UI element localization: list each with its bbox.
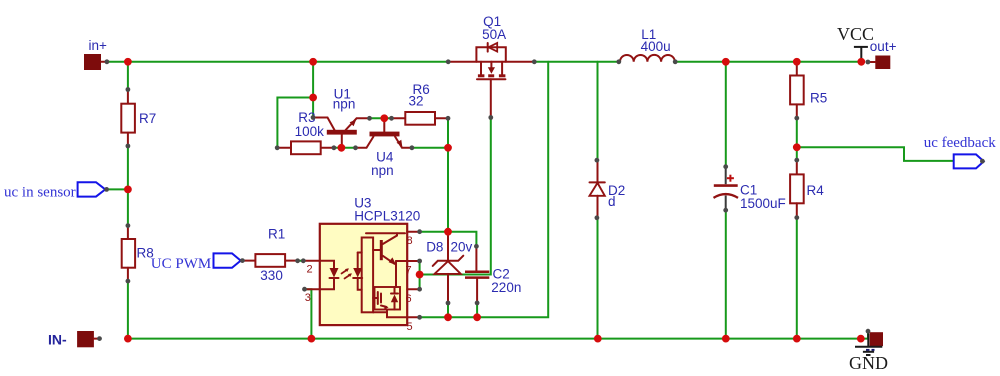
wire uc feedback run xyxy=(797,147,954,161)
svg-text:1500uF: 1500uF xyxy=(740,196,786,211)
wire C2 bottom xyxy=(476,303,478,317)
opto U3 pin 2 xyxy=(303,261,320,276)
wire R5 R4 column xyxy=(796,118,798,160)
wire top rail right xyxy=(675,61,861,63)
resistor R1 xyxy=(242,227,297,284)
opto U3 pin 3 xyxy=(305,289,320,304)
wire U4 emitter to R6 column xyxy=(412,147,448,149)
svg-text:D8: D8 xyxy=(426,240,443,255)
wire R3 feed elbow xyxy=(277,98,313,148)
resistor R7 xyxy=(121,90,156,146)
opto U3 photo led xyxy=(353,253,362,290)
resistor R8 xyxy=(122,226,154,282)
wire pin8 row to C2 xyxy=(420,232,477,247)
svg-text:npn: npn xyxy=(371,163,394,178)
opto U3 input led xyxy=(320,261,339,289)
svg-text:in+: in+ xyxy=(89,38,108,53)
transistor Q1 mosfet xyxy=(448,14,534,118)
svg-text:VCC: VCC xyxy=(837,24,874,44)
hierarchical label uc in sensor xyxy=(4,182,105,200)
svg-text:R5: R5 xyxy=(810,90,827,105)
wire R3 right to U4 xyxy=(334,147,356,149)
wire U1 feed vertical xyxy=(312,62,314,118)
resistor R4 xyxy=(790,160,824,218)
opto U3 inner npn xyxy=(366,233,407,265)
zener D8 xyxy=(426,232,472,303)
diode D2 xyxy=(590,160,626,218)
svg-text:330: 330 xyxy=(260,268,283,283)
svg-text:R4: R4 xyxy=(807,183,825,198)
wire pin5 row to top rail xyxy=(420,62,549,317)
terminal in+ xyxy=(84,38,107,70)
svg-text:220n: 220n xyxy=(491,280,521,295)
power symbol VCC xyxy=(837,24,874,62)
capacitor C1 xyxy=(714,167,786,211)
svg-text:32: 32 xyxy=(409,94,424,109)
opto U3 driver bar xyxy=(362,238,373,313)
resistor R5 xyxy=(790,62,827,118)
svg-text:50A: 50A xyxy=(482,27,506,42)
pin end dots xyxy=(97,59,985,341)
opto U3 pin 6 xyxy=(406,289,420,305)
svg-text:uc in sensor: uc in sensor xyxy=(4,184,76,200)
svg-text:400u: 400u xyxy=(641,39,671,54)
svg-text:6: 6 xyxy=(406,293,412,305)
svg-text:uc feedback: uc feedback xyxy=(924,135,997,151)
hierarchical label uc feedback xyxy=(924,135,997,168)
capacitor C2 xyxy=(465,246,521,303)
opto U3 light arrows xyxy=(342,268,352,278)
terminal out+ xyxy=(868,39,897,69)
hierarchical label UC PWM xyxy=(151,253,241,271)
wire left rail xyxy=(127,62,129,90)
svg-text:d: d xyxy=(608,194,616,209)
svg-text:R7: R7 xyxy=(139,111,156,126)
transistor U4 xyxy=(356,118,412,178)
svg-text:100k: 100k xyxy=(295,124,325,139)
wire C1 column top xyxy=(725,62,727,167)
inductor L1 xyxy=(620,27,675,62)
terminal IN- xyxy=(48,331,100,348)
svg-text:7: 7 xyxy=(406,265,412,277)
wire gate column vertical xyxy=(420,118,491,275)
wire pin3 down xyxy=(305,289,312,338)
resistor R3 xyxy=(277,110,334,154)
wire D2 column bottom xyxy=(597,218,599,339)
svg-text:3: 3 xyxy=(305,292,311,304)
opto U3 pin 7 xyxy=(406,261,420,277)
wire bottom rail xyxy=(128,332,868,339)
power symbol GND xyxy=(849,334,888,374)
wire D8 bottom xyxy=(447,303,449,317)
wire top rail mid xyxy=(534,61,619,63)
wire C1 column bottom xyxy=(725,210,727,338)
svg-text:npn: npn xyxy=(333,96,356,111)
svg-text:2: 2 xyxy=(307,264,313,276)
wire pin7 pin6 tie xyxy=(419,261,421,289)
wire U1 emitter to junction xyxy=(370,117,392,119)
svg-text:UC PWM: UC PWM xyxy=(151,256,211,272)
svg-text:GND: GND xyxy=(849,353,888,373)
svg-text:HCPL3120: HCPL3120 xyxy=(354,209,420,224)
transistor U1 xyxy=(313,87,369,148)
wire D2 column top xyxy=(597,62,599,160)
wire uc in sensor stub xyxy=(107,188,128,190)
svg-text:5: 5 xyxy=(407,321,413,333)
resistor R6 xyxy=(392,82,449,125)
svg-text:R1: R1 xyxy=(268,227,285,242)
opto U3 pin 8 xyxy=(407,232,420,247)
svg-text:IN-: IN- xyxy=(48,332,67,348)
opto U3 inner mosfet block xyxy=(373,261,407,317)
opto coupler U3 box xyxy=(320,195,420,325)
opto U3 pin 5 xyxy=(407,317,420,333)
svg-text:8: 8 xyxy=(407,235,413,247)
wire top rail left xyxy=(107,61,448,63)
wire pin2 stub xyxy=(298,260,304,262)
svg-text:20v: 20v xyxy=(451,240,473,255)
wire R6 column vertical xyxy=(447,118,449,231)
terminal GND side xyxy=(870,332,883,346)
